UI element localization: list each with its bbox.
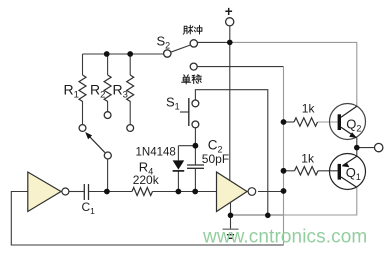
svg-text:1k: 1k	[302, 102, 316, 116]
svg-text:www.cntronics.com: www.cntronics.com	[202, 227, 367, 248]
svg-text:+: +	[225, 4, 233, 19]
svg-text:50pF: 50pF	[202, 152, 229, 166]
svg-text:220k: 220k	[133, 173, 160, 187]
svg-text:1N4148: 1N4148	[136, 147, 176, 159]
svg-text:1k: 1k	[301, 151, 315, 165]
